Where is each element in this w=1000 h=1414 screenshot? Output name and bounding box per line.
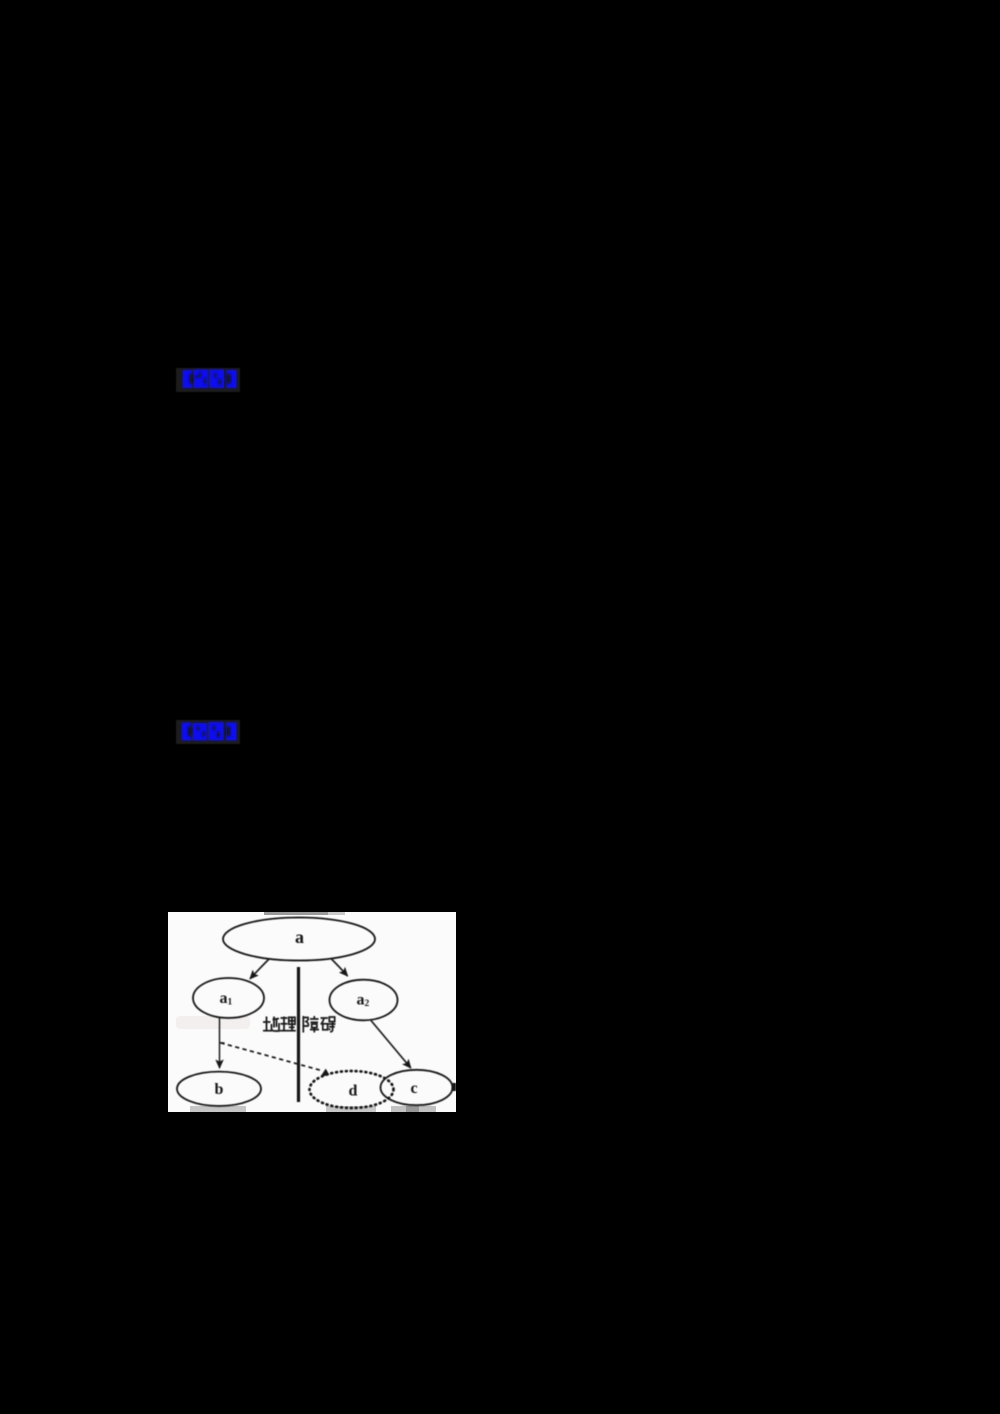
svg-text:c: c [411,1080,418,1097]
svg-text:d: d [349,1083,358,1100]
arrow a1 to b [219,1018,221,1068]
char ai [321,1017,336,1032]
char li [280,1017,296,1032]
node labels [215,927,418,1100]
svg-text:b: b [215,1081,224,1098]
scan artifact ghost text left [176,1016,250,1029]
arrow a to a1 [250,959,270,979]
char di [263,1017,279,1032]
black notch right edge [452,1083,456,1091]
scan artifact gray strip top [264,912,328,915]
arrow a to a2 [331,959,348,977]
label [jiexi] blue highlighted tag 1 [174,366,242,394]
scanned diagram: species divergence figure [168,912,456,1112]
barrier line [297,967,300,1102]
tick on a1-b line [220,1042,225,1044]
ellipse a2 [330,980,398,1021]
ellipse c [381,1070,453,1105]
svg-text:a: a [295,927,304,947]
ellipse b [177,1072,261,1106]
char zhang [303,1016,319,1033]
CJK text: di li zhang ai (geographic barrier) [263,1016,336,1033]
dashed arrow to d [221,1043,322,1071]
white scan background [168,912,456,1112]
scan artifact gray strips bottom [190,1106,246,1112]
arrow a2 to c [371,1021,411,1069]
ellipse a [223,918,375,961]
dashed arrowhead pointing NE [320,1069,329,1077]
ellipse d dotted [310,1071,394,1108]
label [dianping] blue highlighted tag 2 [174,718,242,746]
ellipse a1 [193,978,264,1018]
